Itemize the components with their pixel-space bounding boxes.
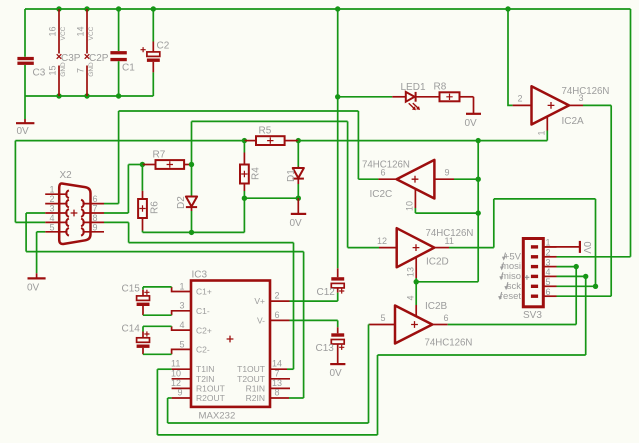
SV3 pin 3 xyxy=(531,265,538,268)
SV3 pin 5 xyxy=(531,285,538,288)
junction IC2C pin10 xyxy=(476,210,481,215)
power symbol C3P pin 15 GND xyxy=(58,66,60,97)
svg-text:0V: 0V xyxy=(581,242,592,255)
wire IC2A out xyxy=(583,104,611,106)
svg-text:C1+: C1+ xyxy=(196,287,212,297)
IC2D input pin 12 xyxy=(379,247,397,249)
wire to LED1 anode xyxy=(338,96,393,98)
MAX232 pin 3 C1- xyxy=(172,311,191,315)
svg-text:C3P: C3P xyxy=(61,53,81,64)
IC2C enable pin 10 xyxy=(414,189,416,208)
junction D1 bottom xyxy=(296,196,301,201)
X2 pin 8 xyxy=(83,221,105,223)
svg-text:1: 1 xyxy=(180,282,185,292)
capacitor C14 polarized xyxy=(143,325,172,327)
wire X2 pin6 to IC2C xyxy=(104,203,119,205)
svg-text:4: 4 xyxy=(546,267,551,277)
svg-text:R2IN: R2IN xyxy=(246,393,265,403)
wire VCC right drop to SV3 pin2 xyxy=(630,9,632,257)
MAX232 pin 11 T1IN xyxy=(172,368,191,370)
svg-text:GND: GND xyxy=(60,62,67,77)
ground 0V at R8 xyxy=(473,97,475,114)
svg-text:R5: R5 xyxy=(259,126,272,137)
svg-text:T1OUT: T1OUT xyxy=(237,364,265,374)
wire X2 pin3 down xyxy=(25,213,27,252)
IC2C input pin 9 xyxy=(434,178,454,180)
junction LED branch xyxy=(335,94,340,99)
svg-text:SV3: SV3 xyxy=(523,310,542,321)
wire miso down left xyxy=(377,355,379,435)
wire y121 across xyxy=(192,120,348,122)
wire sck xyxy=(557,285,596,287)
IC2B enable pin 4 xyxy=(415,282,417,305)
IC2B output pin 6 xyxy=(432,324,447,326)
wire sck across xyxy=(494,198,596,200)
capacitor C2 polarized xyxy=(152,9,154,42)
svg-text:13: 13 xyxy=(406,267,416,277)
X2 pin 1 xyxy=(45,193,67,195)
svg-text:T1IN: T1IN xyxy=(196,364,214,374)
MAX232 pin 7 T2OUT xyxy=(270,378,290,380)
svg-text:10: 10 xyxy=(171,368,181,378)
svg-text:reset: reset xyxy=(500,291,521,302)
junction VCC C3P xyxy=(56,6,61,11)
junction VCC C2P xyxy=(84,6,89,11)
svg-text:10: 10 xyxy=(405,201,415,211)
junction sck xyxy=(593,284,598,289)
svg-text:6: 6 xyxy=(546,287,551,297)
diode D1 xyxy=(297,141,299,167)
MAX232 pin 12 R1OUT xyxy=(172,387,191,389)
junction R7 right / D2 top xyxy=(189,162,194,167)
svg-text:12: 12 xyxy=(377,236,387,246)
wire enable net horizontal xyxy=(298,140,547,142)
svg-text:C1: C1 xyxy=(122,63,135,74)
capacitor C3 xyxy=(24,9,26,57)
IC2A enable pin 1 xyxy=(546,116,548,130)
op-amp buffer IC2A 74HC126N xyxy=(513,104,532,106)
IC2D output pin 11 xyxy=(434,247,449,249)
junction enable branch xyxy=(476,138,481,143)
svg-text:3: 3 xyxy=(579,93,584,103)
op-amp buffer IC2C 74HC126N xyxy=(397,160,435,199)
svg-text:0V: 0V xyxy=(290,218,303,229)
svg-text:9: 9 xyxy=(93,222,98,232)
svg-text:C13: C13 xyxy=(316,343,335,354)
svg-text:C2+: C2+ xyxy=(196,325,212,335)
svg-text:C15: C15 xyxy=(122,284,141,295)
wire GND rail xyxy=(25,95,153,97)
svg-text:V+: V+ xyxy=(254,296,265,306)
SV3 pin 1 xyxy=(531,245,538,248)
svg-text:7: 7 xyxy=(76,68,86,73)
wire R6 D2 bottom row xyxy=(143,231,245,233)
junction VCC LED branch xyxy=(335,6,340,11)
wire miso bottom xyxy=(157,434,377,436)
svg-text:16: 16 xyxy=(48,26,58,36)
power symbol C2P origin xyxy=(85,54,90,59)
wire down to MAX232 R2IN xyxy=(303,252,305,398)
resistor R6 xyxy=(141,165,143,191)
wire down to R6/D2 row xyxy=(243,198,245,232)
MAX232 pin 9 R2OUT xyxy=(172,397,191,399)
wire +5V xyxy=(557,256,631,258)
svg-text:74HC126N: 74HC126N xyxy=(562,86,610,97)
MAX232 pin 13 R1IN xyxy=(270,387,290,389)
X2 pin 5 xyxy=(45,231,67,233)
svg-text:1: 1 xyxy=(537,130,547,135)
svg-text:IC3: IC3 xyxy=(192,270,208,281)
wire X2.4 net horizontal xyxy=(15,140,244,142)
svg-text:C2-: C2- xyxy=(196,345,210,355)
svg-text:T2IN: T2IN xyxy=(196,374,214,384)
svg-text:6: 6 xyxy=(381,168,386,178)
capacitor C1 xyxy=(118,9,120,51)
svg-text:0V: 0V xyxy=(27,283,40,294)
power symbol C2P pin 14 VCC xyxy=(86,9,88,54)
svg-text:0V: 0V xyxy=(465,118,478,129)
svg-text:LED1: LED1 xyxy=(401,82,426,93)
LED1 emission arrows xyxy=(409,103,419,108)
svg-text:3: 3 xyxy=(180,301,185,311)
power symbol C2P pin 7 GND xyxy=(86,66,88,97)
svg-text:0V: 0V xyxy=(17,126,30,137)
X2 pin 7 xyxy=(83,212,105,214)
wire D2 node up xyxy=(191,121,193,164)
junction R4 bottom xyxy=(242,196,247,201)
X2 pin 2 xyxy=(45,203,67,205)
X2 pin 4 xyxy=(45,221,67,223)
X2 pin 9 xyxy=(83,231,105,233)
IC2D enable pin 13 xyxy=(415,257,417,278)
ground 0V left of cap bank xyxy=(24,96,26,119)
svg-text:5: 5 xyxy=(381,313,386,323)
wire miso up to T1IN xyxy=(156,369,158,435)
LED LED1 xyxy=(392,96,406,98)
capacitor C12 polarized xyxy=(337,268,339,277)
wire VCC vertical to C12 xyxy=(337,9,339,268)
svg-text:GND: GND xyxy=(88,62,95,77)
wire miso xyxy=(557,275,586,277)
SV3 pin 2 xyxy=(531,255,538,258)
junction D2 bottom xyxy=(189,230,194,235)
svg-text:74HC126N: 74HC126N xyxy=(425,338,473,349)
wire VCC top rail xyxy=(25,8,631,10)
wire enable to IC2D pin13 xyxy=(416,281,478,283)
svg-text:IC2C: IC2C xyxy=(370,189,393,200)
MAX232 pin 10 T2IN xyxy=(172,378,191,380)
wire down to IC2D input xyxy=(347,121,349,247)
ground 0V under D1 xyxy=(297,198,299,214)
svg-text:7: 7 xyxy=(275,368,280,378)
resistor R8 xyxy=(440,92,460,101)
svg-text:IC2D: IC2D xyxy=(426,257,449,268)
svg-text:C3: C3 xyxy=(33,68,46,79)
IC U3 MAX232 box xyxy=(191,281,270,407)
wire reset xyxy=(557,295,612,297)
svg-text:74HC126N: 74HC126N xyxy=(362,160,410,171)
wire reset up to IC2A out xyxy=(610,105,612,296)
SV3 pin 6 xyxy=(531,295,538,298)
capacitor C13 polarized xyxy=(337,320,339,327)
svg-text:12: 12 xyxy=(171,378,181,388)
svg-text:4: 4 xyxy=(406,295,416,300)
junction VCC C2 xyxy=(151,6,156,11)
svg-text:14: 14 xyxy=(76,26,86,36)
IC2B input pin 5 xyxy=(370,324,396,326)
capacitor C15 polarized xyxy=(143,286,172,288)
svg-text:9: 9 xyxy=(445,168,450,178)
wire IC2D out up xyxy=(493,199,495,248)
svg-text:11: 11 xyxy=(445,236,454,246)
junction VCC IC2A input xyxy=(505,6,510,11)
wire R2OUT to IC2B.5 xyxy=(168,422,369,424)
svg-text:6: 6 xyxy=(275,310,280,320)
X2 pin 6 xyxy=(83,203,105,205)
svg-text:11: 11 xyxy=(171,359,180,369)
svg-text:2: 2 xyxy=(518,94,523,104)
svg-text:D2: D2 xyxy=(176,196,187,209)
junction R5 left R4 xyxy=(242,138,247,143)
wire miso down xyxy=(585,276,587,355)
wire X2 pin3 across to R2IN xyxy=(26,251,304,253)
svg-text:9: 9 xyxy=(178,388,183,398)
svg-text:R1OUT: R1OUT xyxy=(196,383,225,393)
MAX232 pin 4 C2+ xyxy=(172,326,191,330)
junction mosi xyxy=(574,264,579,269)
MAX232 pin 1 C1+ xyxy=(172,287,191,292)
svg-text:VCC: VCC xyxy=(60,26,67,40)
wire sck down xyxy=(595,199,597,286)
wire X2 pin8 to MAX232 T1OUT xyxy=(104,221,129,223)
resistor R4 xyxy=(243,141,245,153)
svg-text:T2OUT: T2OUT xyxy=(237,374,265,384)
junction enable IC2D/IC2B xyxy=(414,279,419,284)
svg-text:V-: V- xyxy=(257,316,265,326)
X2 pin 3 xyxy=(45,212,67,214)
MAX232 pin 14 T1OUT xyxy=(270,368,287,370)
svg-text:C2: C2 xyxy=(157,41,170,52)
op-amp buffer IC2B 74HC126N xyxy=(395,306,432,344)
svg-text:C2P: C2P xyxy=(89,53,109,64)
MAX232 pin 5 C2- xyxy=(172,349,191,354)
svg-text:C1-: C1- xyxy=(196,306,210,316)
svg-text:R6: R6 xyxy=(150,201,161,214)
diode D2 xyxy=(191,165,193,197)
MAX232 pin 8 R2IN xyxy=(270,397,289,399)
wire enable vertical xyxy=(477,141,479,282)
junction VCC C1 xyxy=(116,6,121,11)
svg-text:R2OUT: R2OUT xyxy=(196,393,225,403)
wire X2.4 net vertical xyxy=(14,141,16,223)
MAX232 pin 6 V- xyxy=(270,319,290,321)
svg-text:R7: R7 xyxy=(153,150,166,161)
svg-text:D1: D1 xyxy=(286,169,297,182)
svg-text:R1IN: R1IN xyxy=(246,383,265,393)
junction GND C3P xyxy=(56,93,61,98)
junction R5 right D1 xyxy=(296,138,301,143)
junction miso xyxy=(583,274,588,279)
svg-text:IC2B: IC2B xyxy=(425,301,448,312)
svg-text:C12: C12 xyxy=(317,287,336,298)
junction R7 left / R6 top xyxy=(140,162,145,167)
junction IC2C pin9 xyxy=(476,177,481,182)
svg-text:14: 14 xyxy=(272,359,282,369)
svg-text:IC2A: IC2A xyxy=(562,116,585,127)
ground 0V under X2 xyxy=(36,273,38,278)
svg-text:15: 15 xyxy=(48,65,58,75)
svg-text:8: 8 xyxy=(275,388,280,398)
op-amp buffer IC2D 74HC126N xyxy=(397,228,435,267)
svg-text:5: 5 xyxy=(50,222,55,232)
MAX232 pin 2 V+ xyxy=(270,300,290,302)
ground 0V at SV3 pin 1 xyxy=(543,246,580,248)
wire mosi xyxy=(557,266,577,268)
wire VCC to IC2A input pin 2 xyxy=(508,9,513,105)
junction GND C2P xyxy=(84,93,89,98)
connector X2 DB9 outline xyxy=(59,183,90,244)
IC2C output pin 6 xyxy=(378,178,396,180)
wire R4-D1 bottom xyxy=(244,197,298,199)
svg-text:C14: C14 xyxy=(122,324,141,335)
svg-text:2: 2 xyxy=(546,248,551,258)
wire X2 pin5 to ground xyxy=(37,231,46,233)
wire X2 pin7 to R7 xyxy=(104,212,128,214)
svg-text:VCC: VCC xyxy=(88,26,95,40)
SV3 pin 4 xyxy=(531,275,538,278)
svg-text:R8: R8 xyxy=(434,82,447,93)
svg-text:2: 2 xyxy=(275,291,280,301)
IC2A output pin 3 xyxy=(569,104,583,106)
svg-text:5: 5 xyxy=(546,277,551,287)
wire miso across xyxy=(378,354,586,356)
svg-text:13: 13 xyxy=(272,378,282,388)
power symbol C3P origin xyxy=(57,54,62,59)
svg-text:0V: 0V xyxy=(330,368,343,379)
wire X2 pin4 to left xyxy=(15,221,45,223)
junction GND C1 xyxy=(116,93,121,98)
svg-text:6: 6 xyxy=(444,313,449,323)
connector SV3 pin header xyxy=(523,239,543,307)
svg-text:R4: R4 xyxy=(251,167,262,180)
power symbol C3P pin 16 VCC xyxy=(58,9,60,54)
ground 0V under C13 xyxy=(330,363,345,365)
svg-text:4: 4 xyxy=(180,320,185,330)
svg-text:MAX232: MAX232 xyxy=(199,411,236,422)
svg-text:3: 3 xyxy=(546,257,551,267)
svg-text:5: 5 xyxy=(180,340,185,350)
resistor R5 xyxy=(244,140,256,142)
svg-text:X2: X2 xyxy=(60,170,73,181)
wire mosi vertical xyxy=(575,267,577,325)
wire X2 pin3 xyxy=(26,212,45,214)
